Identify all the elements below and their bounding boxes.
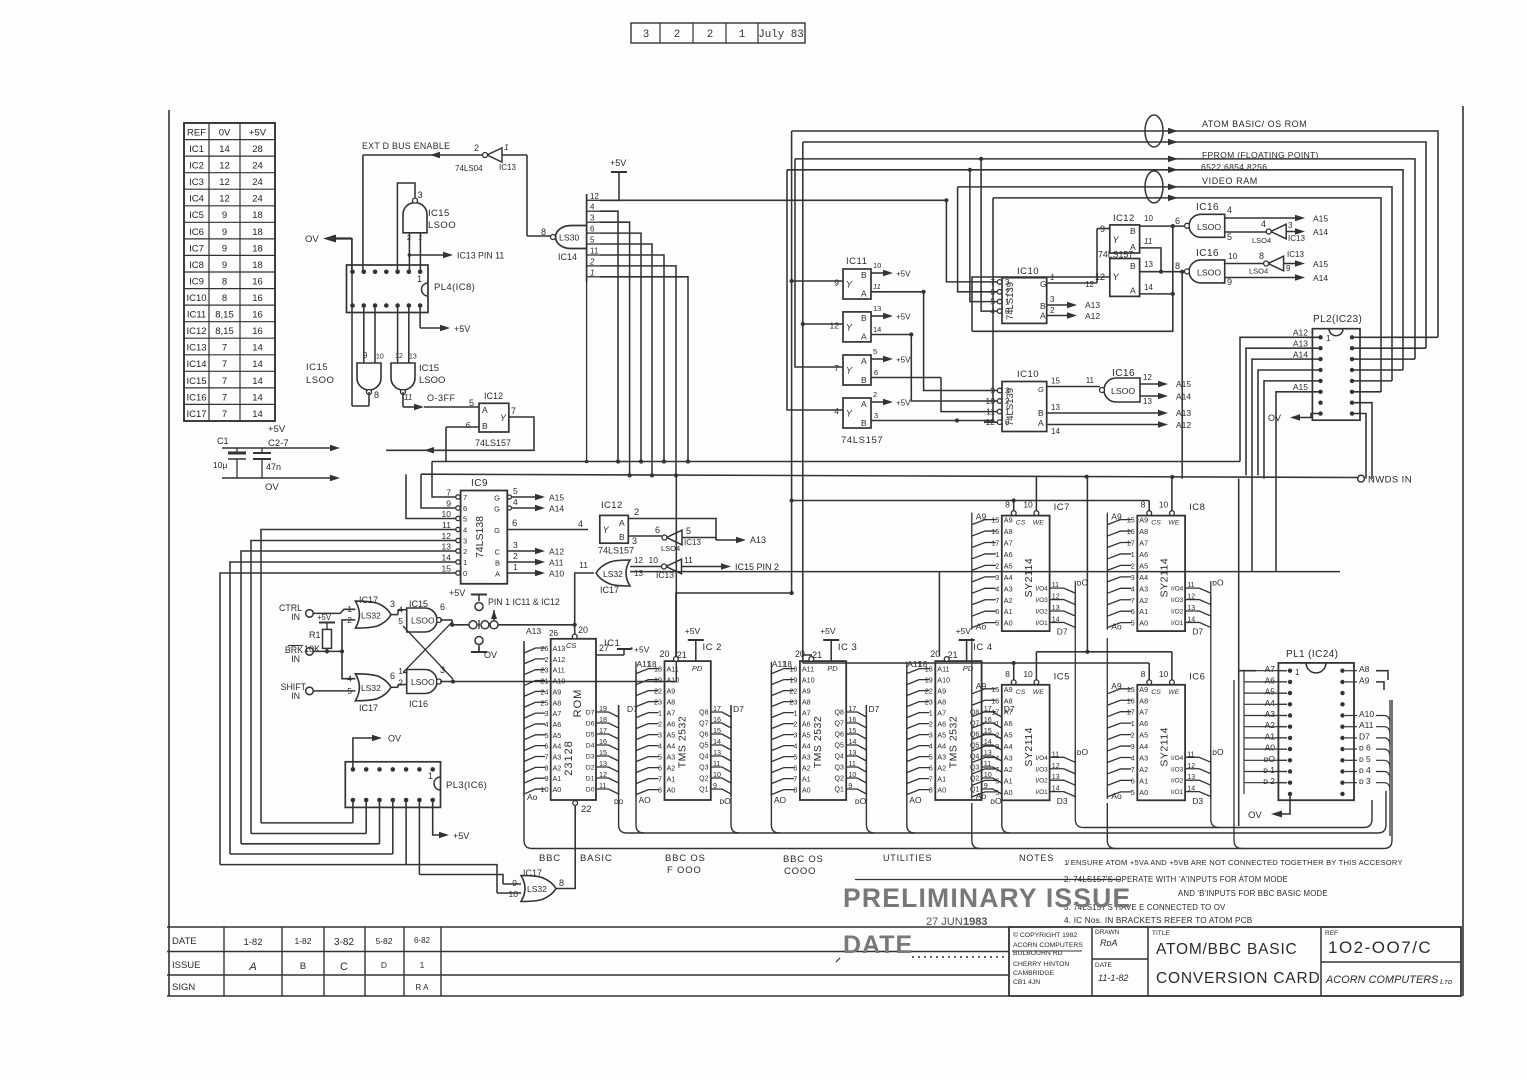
svg-text:5: 5 (1131, 788, 1135, 797)
PL1 right wires A8 A9 wrap (1376, 671, 1388, 680)
svg-text:A2: A2 (937, 764, 946, 773)
svg-text:G: G (494, 505, 500, 514)
svg-text:1̸ ENSURE ATOM +5VA AND +5VB A: 1̸ ENSURE ATOM +5VA AND +5VB ARE NOT CON… (1064, 858, 1403, 867)
svg-text:IC15: IC15 (428, 208, 450, 219)
svg-text:A14: A14 (1293, 350, 1308, 360)
svg-text:+5V: +5V (249, 127, 267, 138)
svg-text:6: 6 (874, 368, 878, 377)
svg-text:NOTES: NOTES (1019, 853, 1054, 863)
svg-text:LSOO: LSOO (411, 677, 435, 687)
svg-text:13: 13 (409, 354, 417, 361)
svg-text:I/O4: I/O4 (1171, 755, 1184, 762)
IC8 CS pin bubble (1147, 511, 1152, 516)
svg-text:A6: A6 (1139, 719, 1148, 728)
svg-text:A15: A15 (1176, 379, 1191, 389)
title block grid (1009, 927, 1461, 996)
svg-text:9: 9 (512, 878, 517, 888)
svg-text:11: 11 (1144, 237, 1152, 246)
svg-text:4: 4 (1261, 219, 1266, 229)
svg-text:A8: A8 (667, 698, 676, 707)
svg-text:A3: A3 (667, 753, 676, 762)
svg-text:AO: AO (774, 795, 787, 805)
svg-text:CHERRY HINTON: CHERRY HINTON (1013, 961, 1069, 968)
svg-text:D7: D7 (733, 704, 744, 714)
svg-text:14: 14 (252, 392, 263, 403)
svg-text:1: 1 (398, 666, 403, 676)
IC10 upper A output arrow A12 (1047, 315, 1068, 317)
wire feed IC11 sec4 Y (787, 170, 843, 410)
long horizontal rail 1 (to PL2) (432, 461, 1240, 463)
svg-text:Q8: Q8 (835, 710, 844, 717)
svg-text:1: 1 (658, 709, 662, 718)
svg-text:I/O2: I/O2 (1171, 778, 1184, 785)
svg-text:TITLE: TITLE (1152, 930, 1170, 937)
svg-text:7: 7 (222, 376, 227, 387)
svg-text:2: 2 (1005, 288, 1010, 297)
svg-text:6: 6 (466, 421, 471, 430)
svg-text:10: 10 (509, 889, 519, 899)
wire NWDS IN line (421, 474, 1358, 477)
IC4 pin 20 CS bubble (944, 657, 949, 662)
wire NAND output 11 to O-3FF arrow (402, 392, 404, 407)
svg-text:LSOO: LSOO (1197, 222, 1221, 232)
wire LS30 pin1b down (600, 277, 688, 462)
svg-text:4: 4 (929, 742, 933, 751)
svg-text:A1: A1 (1004, 776, 1013, 785)
PL3 bottom pin drop 5 (405, 800, 407, 865)
svg-text:CS: CS (1151, 520, 1161, 527)
svg-text:7: 7 (658, 775, 662, 784)
svg-text:A13: A13 (526, 626, 541, 636)
svg-text:A4: A4 (1004, 573, 1013, 582)
svg-text:7: 7 (463, 493, 467, 502)
svg-text:REF: REF (187, 127, 206, 138)
svg-text:16: 16 (252, 293, 263, 304)
svg-text:ISSUE: ISSUE (172, 960, 201, 971)
svg-text:A: A (1130, 286, 1136, 296)
PL1 right bundle vertical (1389, 700, 1391, 836)
svg-text:PL3(IC6): PL3(IC6) (446, 780, 487, 791)
+5V rail wire with arrow (222, 447, 332, 449)
svg-text:A5: A5 (1139, 731, 1148, 740)
IC2 data bus down (731, 705, 739, 833)
svg-text:A8: A8 (1139, 696, 1148, 705)
svg-text:7: 7 (995, 765, 999, 774)
svg-text:IN: IN (291, 654, 300, 664)
svg-text:ATOM/BBC BASIC: ATOM/BBC BASIC (1156, 941, 1298, 958)
svg-text:Y: Y (846, 366, 853, 376)
svg-text:4: 4 (1227, 205, 1232, 215)
svg-text:WE: WE (1033, 520, 1044, 527)
svg-text:1O2-OO7/C: 1O2-OO7/C (1328, 938, 1432, 957)
svg-text:7: 7 (793, 775, 797, 784)
svg-text:1: 1 (739, 29, 745, 41)
svg-text:20: 20 (659, 649, 669, 659)
svg-text:A9: A9 (937, 687, 946, 696)
svg-text:5: 5 (545, 731, 549, 740)
ROM pin22 to bus (574, 800, 576, 806)
PL2 left pin wires (1240, 337, 1321, 461)
svg-text:18: 18 (252, 210, 263, 221)
svg-text:I/O4: I/O4 (1171, 586, 1184, 593)
svg-text:2: 2 (545, 655, 549, 664)
EPROM IC3 TMS2532 body (800, 661, 846, 800)
IC4 data bus down (1002, 705, 1010, 833)
IC9 right outputs B2 A11 (507, 561, 536, 563)
svg-text:14: 14 (873, 325, 881, 334)
svg-text:IC13: IC13 (1288, 234, 1305, 243)
svg-text:A14: A14 (1313, 273, 1328, 283)
svg-text:A0: A0 (802, 786, 811, 795)
svg-text:A: A (619, 518, 625, 528)
svg-text:Q7: Q7 (699, 721, 708, 728)
svg-text:D0: D0 (586, 787, 595, 794)
svg-text:Aᴏ: Aᴏ (527, 792, 538, 802)
svg-text:A9: A9 (802, 687, 811, 696)
svg-text:CB1 4JN: CB1 4JN (1013, 979, 1040, 986)
svg-text:21: 21 (677, 650, 687, 660)
DATE stamp underline tick (836, 958, 840, 962)
IC2 address bus down (636, 670, 644, 833)
svg-text:B: B (1038, 408, 1044, 418)
svg-text:2: 2 (347, 615, 352, 625)
svg-text:1: 1 (590, 268, 594, 277)
OR gate IC17 LS32 upper (switch) (355, 601, 391, 628)
svg-text:12: 12 (219, 161, 230, 172)
svg-text:12: 12 (634, 556, 643, 565)
wire EXT D BUS ENABLE (363, 154, 484, 156)
svg-text:A8: A8 (1004, 696, 1013, 705)
svg-text:14: 14 (252, 343, 263, 354)
svg-text:13: 13 (873, 304, 881, 313)
svg-text:A3: A3 (553, 753, 562, 762)
wire LS04 lower to arrow A15 (1284, 263, 1296, 265)
svg-text:IC10: IC10 (186, 293, 206, 304)
wire PL4 pin6 to IC13 PIN11 branch (408, 255, 410, 271)
wire IC7 CS stub (1013, 501, 1015, 511)
svg-text:CONVERSION CARD: CONVERSION CARD (1156, 970, 1320, 987)
svg-text:6: 6 (390, 671, 395, 681)
inverter IC13 LS04 (IC15 PIN2) (666, 559, 682, 574)
svg-text:A: A (861, 289, 867, 299)
svg-text:DRAWN: DRAWN (1095, 929, 1120, 936)
svg-text:A1: A1 (553, 774, 562, 783)
svg-text:4: 4 (545, 720, 549, 729)
svg-text:A6: A6 (1004, 550, 1013, 559)
svg-text:A7: A7 (802, 709, 811, 718)
svg-text:OV: OV (265, 482, 279, 493)
svg-text:IC13: IC13 (684, 538, 701, 547)
svg-text:9: 9 (222, 260, 227, 271)
svg-text:A15: A15 (1313, 214, 1328, 224)
svg-text:A0: A0 (1004, 788, 1013, 797)
svg-text:12: 12 (1143, 373, 1152, 382)
wire LS32 mid input12 to LS04 (630, 566, 662, 568)
svg-text:IC12: IC12 (186, 326, 206, 337)
svg-text:IC10: IC10 (1017, 369, 1039, 380)
svg-text:A: A (861, 399, 867, 409)
svg-text:LS32: LS32 (361, 683, 381, 693)
svg-text:16: 16 (252, 276, 263, 287)
arrow on EXT D BUS ENABLE wire (430, 152, 440, 159)
svg-text:Q6: Q6 (835, 732, 844, 739)
svg-text:B: B (1130, 226, 1136, 236)
svg-text:IC12: IC12 (1113, 213, 1135, 224)
svg-text:3: 3 (929, 731, 933, 740)
svg-text:4: 4 (1131, 754, 1135, 763)
svg-text:A9: A9 (1111, 512, 1122, 522)
svg-text:9: 9 (222, 243, 227, 254)
wire staircase LS30 pin1 down (600, 266, 676, 476)
svg-text:VIDEO RAM: VIDEO RAM (1202, 176, 1258, 186)
svg-text:A3: A3 (1004, 754, 1013, 763)
svg-text:LS32: LS32 (361, 611, 381, 621)
svg-text:3: 3 (1288, 221, 1293, 230)
svg-text:10μ: 10μ (213, 460, 227, 470)
NAND IC16 latch lower (407, 670, 437, 694)
wire latch output to jumper (452, 624, 469, 626)
svg-text:I/O3: I/O3 (1171, 766, 1184, 773)
revision table cell frame (3|2|2|1|July 83) (631, 23, 805, 43)
svg-text:Q4: Q4 (699, 754, 708, 761)
bottom rail address spine (532, 700, 1392, 849)
svg-text:PD: PD (827, 664, 838, 673)
connector PL3 (IC6) body (345, 762, 440, 808)
svg-text:Q2: Q2 (835, 776, 844, 783)
svg-text:IC14: IC14 (186, 359, 206, 370)
svg-text:+5V: +5V (896, 399, 911, 408)
wire lower mux A pin14 to vertical (1140, 293, 1173, 295)
svg-text:C: C (340, 961, 348, 973)
svg-text:D3: D3 (586, 754, 595, 761)
svg-text:20: 20 (578, 625, 588, 635)
PL3 pin dots top row (351, 767, 356, 772)
svg-text:A11: A11 (937, 665, 949, 674)
svg-text:IC16: IC16 (1196, 248, 1219, 259)
svg-text:Aᴏ: Aᴏ (976, 622, 987, 632)
left bundle rail 3 (241, 843, 380, 845)
svg-text:6: 6 (1131, 607, 1135, 616)
svg-text:3: 3 (1131, 742, 1135, 751)
svg-text:5: 5 (463, 515, 467, 524)
arrow up to PIN1 label (491, 610, 497, 619)
svg-text:IN: IN (291, 691, 300, 701)
svg-text:I/O1: I/O1 (1171, 789, 1184, 796)
svg-text:B: B (1040, 301, 1046, 311)
svg-text:B: B (300, 961, 306, 972)
svg-text:IC11: IC11 (187, 310, 206, 321)
svg-text:3: 3 (632, 536, 637, 546)
svg-text:IC12: IC12 (484, 391, 503, 401)
svg-text:3: 3 (418, 190, 423, 200)
multiplexer IC11 74LS157 section 4 (Y4 A2 B3) (843, 398, 871, 428)
svg-text:14: 14 (1051, 427, 1060, 436)
svg-text:A10: A10 (667, 676, 680, 685)
svg-text:24: 24 (252, 194, 263, 205)
svg-text:Q3: Q3 (699, 765, 708, 772)
svg-text:14: 14 (252, 409, 263, 420)
svg-text:A2: A2 (1004, 596, 1013, 605)
svg-text:2: 2 (674, 29, 680, 41)
bus line 6 VIDEO RAM lower (993, 198, 1381, 392)
svg-text:2: 2 (995, 561, 999, 570)
multiplexer IC11 74LS157 section 2 (Y12 B13 A14) (843, 312, 871, 342)
IC2 pin 20 CS bubble (674, 657, 679, 662)
IC9 right outputs G4 A14 (507, 507, 536, 509)
svg-text:5: 5 (995, 788, 999, 797)
svg-text:SY2114: SY2114 (1023, 558, 1035, 598)
svg-text:IC10: IC10 (1017, 266, 1039, 277)
IC3 address bus down (771, 670, 779, 833)
svg-text:B: B (495, 559, 500, 568)
svg-text:A6: A6 (802, 720, 811, 729)
wire jumper to ROM CS net (498, 624, 575, 626)
PL3 bottom pin drop 3 (379, 800, 381, 844)
IC10 upper B output arrow A13 (1047, 304, 1068, 306)
svg-text:AO: AO (639, 795, 652, 805)
LS30 pin rungs and numbers (587, 199, 600, 201)
svg-text:A1: A1 (1139, 776, 1148, 785)
svg-text:12: 12 (590, 192, 599, 201)
svg-text:IC13: IC13 (1287, 250, 1304, 259)
svg-text:13: 13 (442, 542, 452, 552)
wire IC5 CS stub (1013, 663, 1015, 680)
svg-text:IC17: IC17 (359, 703, 378, 713)
svg-text:LS32: LS32 (603, 569, 623, 579)
svg-text:2: 2 (793, 720, 797, 729)
svg-text:24: 24 (252, 161, 263, 172)
jumper post upper (475, 603, 483, 611)
IC9 right outputs G5 A15 (507, 496, 536, 498)
svg-text:A3: A3 (1139, 584, 1148, 593)
svg-text:3: 3 (658, 731, 662, 740)
svg-text:+5V: +5V (453, 831, 469, 841)
left bundle rail 5 (220, 864, 406, 866)
svg-text:2: 2 (929, 720, 933, 729)
svg-text:ATOM BASIC/ OS ROM: ATOM BASIC/ OS ROM (1202, 119, 1307, 129)
frame left border (168, 110, 170, 996)
svg-text:1: 1 (1005, 298, 1010, 307)
PL1 right wire fan (1376, 716, 1390, 724)
wire staircase LS30 pin6 down (600, 233, 641, 461)
svg-text:A3: A3 (1004, 584, 1013, 593)
svg-text:Aᴏ: Aᴏ (976, 791, 987, 801)
svg-text:A2: A2 (1139, 765, 1148, 774)
svg-text:OV: OV (305, 234, 319, 245)
svg-text:Y: Y (846, 323, 853, 333)
svg-text:1: 1 (995, 719, 999, 728)
svg-text:A1: A1 (1004, 607, 1013, 616)
wire OR2 output to latch input 2 (391, 686, 398, 688)
wire OR1 output to latch input 4 (391, 614, 398, 616)
long vertical from bus line2 corner down-left (802, 142, 804, 663)
svg-text:6: 6 (655, 525, 660, 535)
svg-text:14: 14 (252, 376, 263, 387)
svg-text:1: 1 (504, 142, 509, 152)
svg-text:OV: OV (1248, 810, 1262, 821)
wire feed IC11 sec3 Y (795, 159, 843, 367)
PL1 0V arrow (1280, 794, 1290, 814)
PL2 right pin wires to wrap verticals (1352, 336, 1438, 338)
svg-text:B: B (1130, 261, 1136, 271)
svg-text:IC17: IC17 (359, 595, 378, 605)
wire O-3FF to IC12 input A (424, 406, 479, 408)
PL3 bottom pin drop 1 (352, 800, 354, 823)
svg-text:3: 3 (1050, 295, 1055, 304)
svg-text:ᴅ 5: ᴅ 5 (1359, 754, 1371, 764)
svg-text:LSO4: LSO4 (1252, 236, 1271, 245)
svg-text:1: 1 (1131, 719, 1135, 728)
svg-text:A2: A2 (1265, 720, 1276, 730)
wire NWDS down to lower WE rail (1086, 477, 1088, 652)
IC power-pin reference table (184, 123, 275, 421)
svg-text:A5: A5 (1265, 687, 1276, 697)
wire NAND output 8 to 0V-3FF region (368, 392, 370, 406)
wire IC6 WE stub (1171, 652, 1173, 680)
bus line 5 VIDEO RAM upper (958, 187, 1392, 381)
arrow IC13 PIN 11 (409, 254, 444, 256)
svg-text:8: 8 (222, 276, 227, 287)
wire IC8 WE to NWDS (1171, 477, 1173, 511)
left bundle rail 1 (261, 822, 353, 824)
wire LS32 mid output down to ROM CS (575, 573, 594, 637)
inverter IC13 LS04 (to A15 lower) (1268, 256, 1284, 271)
svg-text:9: 9 (834, 278, 839, 288)
wire LS32 mid input13 long line (630, 571, 1340, 573)
svg-text:14: 14 (1144, 283, 1153, 292)
svg-text:3: 3 (545, 709, 549, 718)
svg-text:7: 7 (446, 488, 451, 498)
svg-text:5: 5 (658, 753, 662, 762)
PL3 bottom pin drop 6 (418, 800, 420, 875)
svg-text:13: 13 (1143, 397, 1152, 406)
svg-text:Q1: Q1 (699, 787, 708, 794)
left bundle rail 7 to OR gate (406, 865, 497, 893)
multiplexer IC11 74LS157 section 1 (Y9 B10 A11) (843, 269, 871, 299)
wire LS04 mid output to A13 arrow (682, 537, 716, 539)
svg-text:A5: A5 (802, 731, 811, 740)
svg-text:6: 6 (512, 518, 517, 529)
svg-text:2: 2 (1005, 397, 1010, 406)
svg-text:6-82: 6-82 (414, 936, 431, 945)
ROM address bus down (524, 641, 532, 849)
svg-text:A6: A6 (667, 720, 676, 729)
svg-text:A13: A13 (1293, 339, 1308, 349)
wires IC10 upper inputs from verticals (946, 200, 997, 282)
inverter IC13 pins 1-2 74LS04 (487, 148, 502, 162)
svg-text:A3: A3 (1265, 709, 1276, 719)
svg-text:A7: A7 (937, 709, 946, 718)
svg-text:10: 10 (1159, 669, 1169, 679)
svg-text:3: 3 (1131, 573, 1135, 582)
left bundle rail 4 (230, 853, 393, 855)
svg-text:IC15 PIN 2: IC15 PIN 2 (735, 562, 779, 572)
ROM CS pin 20 bubble (572, 634, 577, 639)
svg-text:26: 26 (549, 629, 558, 638)
svg-text:A: A (861, 331, 867, 341)
svg-text:BBC: BBC (539, 853, 561, 864)
svg-text:74LS157: 74LS157 (475, 438, 511, 448)
svg-text:O-3FF: O-3FF (427, 393, 456, 403)
svg-text:3: 3 (793, 731, 797, 740)
svg-text:21: 21 (812, 650, 822, 660)
svg-text:IC8: IC8 (189, 260, 204, 271)
svg-text:IC16: IC16 (186, 392, 206, 403)
svg-text:+5V: +5V (610, 158, 626, 168)
svg-text:ᴅ 3: ᴅ 3 (1359, 776, 1371, 786)
capacitor C1 10u (236, 448, 238, 453)
PL3 bottom pin drop 4 (392, 800, 394, 854)
